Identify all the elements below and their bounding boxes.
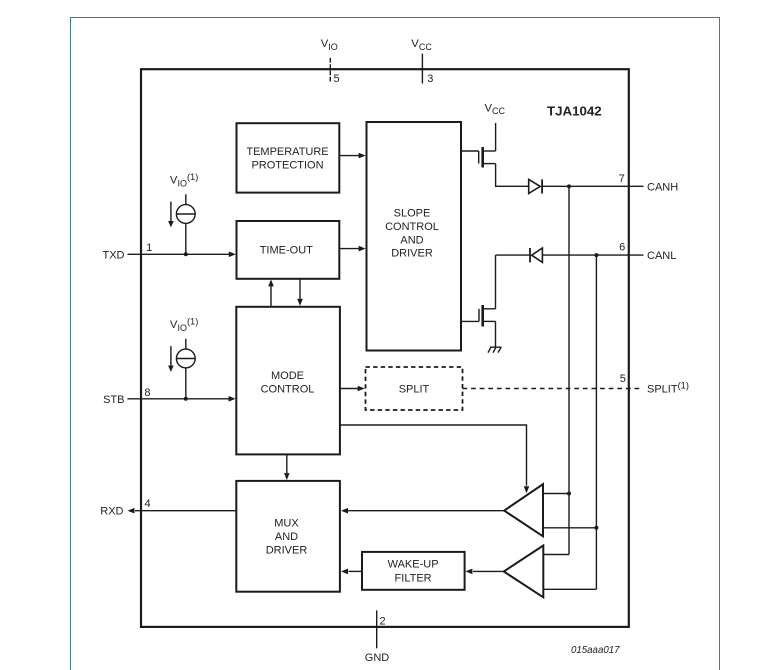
svg-text:1: 1 xyxy=(146,242,152,254)
svg-text:CONTROL: CONTROL xyxy=(385,221,439,233)
svg-text:AND: AND xyxy=(400,234,423,246)
svg-text:TJA1042: TJA1042 xyxy=(547,104,602,119)
svg-text:SPLIT: SPLIT xyxy=(399,384,430,396)
svg-text:DRIVER: DRIVER xyxy=(391,248,433,260)
svg-text:MUX: MUX xyxy=(274,517,299,529)
svg-text:WAKE-UP: WAKE-UP xyxy=(388,558,439,570)
svg-text:7: 7 xyxy=(619,173,625,185)
svg-text:2: 2 xyxy=(380,616,386,628)
svg-text:STB: STB xyxy=(103,394,124,406)
svg-text:6: 6 xyxy=(619,242,625,254)
svg-text:SLOPE: SLOPE xyxy=(394,208,431,220)
svg-text:015aaa017: 015aaa017 xyxy=(571,645,620,656)
svg-text:8: 8 xyxy=(144,387,150,399)
svg-text:CANL: CANL xyxy=(647,250,676,262)
svg-text:5: 5 xyxy=(334,73,340,85)
svg-text:4: 4 xyxy=(145,498,151,510)
svg-text:AND: AND xyxy=(275,531,298,543)
svg-text:3: 3 xyxy=(427,73,433,85)
svg-text:DRIVER: DRIVER xyxy=(266,545,308,557)
svg-text:RXD: RXD xyxy=(100,506,123,518)
svg-text:5: 5 xyxy=(620,373,626,385)
svg-text:FILTER: FILTER xyxy=(395,572,432,584)
svg-text:MODE: MODE xyxy=(271,370,304,382)
svg-text:CANH: CANH xyxy=(647,182,678,194)
svg-text:TXD: TXD xyxy=(103,250,125,262)
svg-text:TEMPERATURE: TEMPERATURE xyxy=(246,146,328,158)
svg-text:GND: GND xyxy=(365,652,390,664)
svg-text:CONTROL: CONTROL xyxy=(261,383,315,395)
svg-text:TIME-OUT: TIME-OUT xyxy=(260,244,313,256)
svg-text:PROTECTION: PROTECTION xyxy=(251,159,323,171)
